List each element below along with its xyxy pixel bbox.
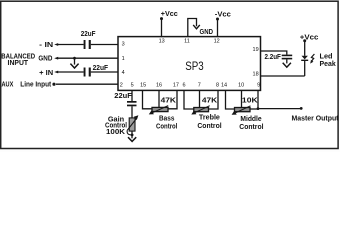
junction on GND wire	[73, 57, 76, 60]
svg-text:2: 2	[120, 83, 123, 89]
svg-text:10: 10	[238, 83, 244, 89]
wire pin13 to +Vcc	[160, 17, 163, 20]
wire C4 to ground	[286, 59, 288, 63]
potentiometer gain 100K	[129, 118, 135, 131]
svg-text:47K: 47K	[161, 97, 176, 104]
wire pin16 to bass pot top	[158, 90, 160, 107]
wire +IN to C2	[58, 71, 84, 73]
svg-text:+ IN: + IN	[39, 70, 53, 77]
svg-text:15: 15	[140, 83, 146, 89]
svg-text:Control: Control	[197, 123, 221, 130]
capacitor C1 22uF	[84, 40, 86, 49]
wire pin6 to treble pot left	[184, 90, 194, 109]
wire pin10 to middle pot top	[241, 90, 243, 108]
svg-text:22uF: 22uF	[93, 65, 109, 72]
potentiometer treble 47K	[194, 108, 209, 112]
svg-text:19: 19	[253, 47, 259, 53]
svg-text:Control: Control	[239, 124, 263, 131]
wire pin7 to treble pot top	[199, 90, 201, 108]
svg-text:Line Input: Line Input	[20, 82, 52, 89]
svg-text:Bass: Bass	[159, 116, 174, 123]
wire C3 to gain pot	[131, 106, 133, 118]
wire pin18 to LED	[261, 75, 305, 77]
ground below C4	[283, 63, 291, 67]
svg-text:47K: 47K	[202, 97, 217, 104]
svg-text:4: 4	[122, 70, 125, 76]
svg-text:5: 5	[131, 83, 134, 89]
wire C2 to pin4	[91, 71, 118, 73]
wire junction to master output	[258, 108, 301, 110]
svg-text:14: 14	[221, 83, 227, 89]
svg-text:7: 7	[198, 83, 201, 89]
op-amp U1 SP3 IC body	[118, 37, 261, 91]
master output terminal	[300, 107, 303, 110]
junction node	[257, 107, 260, 110]
svg-text:2.2uF: 2.2uF	[265, 54, 282, 61]
svg-text:Peak: Peak	[320, 61, 336, 68]
svg-text:12: 12	[214, 39, 220, 45]
wire pin14 to middle pot left	[226, 90, 235, 109]
wire +Vcc to LED	[304, 41, 306, 56]
svg-text:Treble: Treble	[199, 115, 220, 122]
wire pin15 to bass pot left	[143, 90, 153, 109]
svg-text:3: 3	[122, 42, 125, 48]
capacitor C2 22uF	[84, 68, 86, 77]
svg-text:13: 13	[159, 39, 165, 45]
ground below gain pot	[128, 137, 136, 141]
svg-text:AUX: AUX	[2, 82, 14, 89]
terminal arrow +IN	[54, 71, 58, 74]
svg-text:22uF: 22uF	[114, 93, 132, 100]
svg-text:SP3: SP3	[185, 61, 204, 73]
ground GND hook at pin 11	[188, 19, 197, 37]
svg-text:17: 17	[173, 83, 179, 89]
ground symbol on GND wire	[74, 58, 76, 64]
svg-text:+Vcc: +Vcc	[161, 11, 178, 18]
wire AUX to pin2	[56, 83, 118, 85]
wire C1 to pin3	[91, 44, 118, 46]
wire pin19 to C4	[261, 51, 287, 55]
svg-text:GND: GND	[38, 56, 52, 63]
svg-text:INPUT: INPUT	[8, 60, 29, 67]
terminal arrow -IN	[54, 43, 58, 46]
svg-text:1: 1	[122, 56, 125, 62]
wire pin12 to -Vcc	[216, 18, 219, 21]
svg-text:16: 16	[156, 83, 162, 89]
svg-text:9: 9	[257, 83, 260, 89]
svg-text:10K: 10K	[242, 98, 258, 105]
wire pin5 down	[131, 90, 133, 101]
LED D1	[302, 56, 308, 60]
svg-text:-Vcc: -Vcc	[215, 11, 231, 18]
svg-text:+Vcc: +Vcc	[300, 34, 319, 41]
wire pin8 to treble pot right	[209, 90, 219, 109]
wire middle pot right to junction	[250, 108, 258, 110]
wire GND to pin1	[58, 57, 119, 59]
border frame (decorative)	[1, 1, 338, 148]
potentiometer middle 10K	[235, 108, 251, 112]
svg-text:- IN: - IN	[39, 42, 53, 49]
svg-text:22uF: 22uF	[81, 31, 96, 38]
wire -IN to C1	[58, 44, 84, 46]
svg-text:Control: Control	[156, 123, 177, 130]
wire pin17 to bass pot right	[168, 90, 177, 109]
svg-text:18: 18	[253, 71, 259, 77]
LED light arrow	[311, 54, 314, 61]
svg-text:100K: 100K	[106, 129, 125, 136]
wire pot to ground	[131, 131, 133, 138]
wire pin9 down to output	[257, 90, 259, 109]
terminal arrow AUX	[52, 83, 55, 86]
svg-text:GND: GND	[200, 29, 214, 36]
svg-text:Middle: Middle	[240, 116, 261, 123]
svg-text:Led: Led	[320, 54, 333, 61]
wire LED to pin18 wire	[304, 61, 306, 76]
svg-text:Master Output: Master Output	[292, 115, 340, 122]
svg-text:8: 8	[216, 83, 219, 89]
svg-text:6: 6	[182, 83, 185, 89]
terminal arrow GND	[54, 57, 58, 60]
potentiometer bass 47K	[152, 107, 168, 111]
svg-text:11: 11	[184, 39, 190, 45]
